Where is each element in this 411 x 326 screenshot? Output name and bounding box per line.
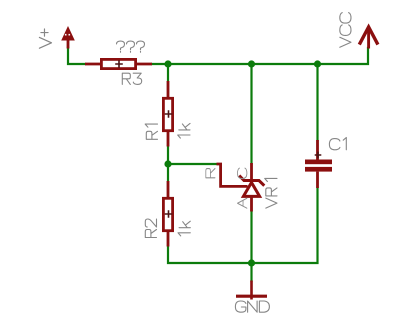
VR1 cathode pin bbox=[250, 163, 253, 180]
label ??? (R3 value) bbox=[117, 41, 145, 52]
supply V+ P1 bbox=[61, 26, 75, 49]
wire top rail from R3 to VCC corner bbox=[152, 48, 368, 64]
resistor R3 bbox=[85, 59, 152, 68]
label VCC bbox=[340, 13, 351, 48]
label 1k (R1 value) bbox=[178, 123, 190, 138]
wire middle node to VR1 ref bbox=[168, 163, 217, 165]
shunt regulator VR1 (TL431) bbox=[217, 163, 265, 212]
resistor R1 bbox=[163, 81, 172, 147]
wire R1 top bbox=[167, 64, 169, 81]
junction middle R1/R2/ref bbox=[164, 160, 171, 167]
junction top VR1 bbox=[248, 60, 255, 67]
wire GND stem bbox=[250, 263, 252, 281]
wire R1 bottom bbox=[167, 146, 169, 164]
wire VR1 anode to bottom rail bbox=[250, 211, 252, 263]
wire VR1 cathode column bbox=[250, 64, 252, 164]
wire C1 top bbox=[316, 64, 318, 140]
label C1 bbox=[329, 138, 346, 150]
capacitor C1 bbox=[305, 140, 332, 188]
label R2 bbox=[145, 219, 156, 238]
VR1 triangle bbox=[243, 183, 259, 197]
wire bottom rail to C1 column bbox=[252, 188, 318, 263]
wire V+ down to top rail bbox=[68, 48, 85, 64]
label GND bbox=[235, 301, 269, 312]
supply VCC bbox=[359, 27, 378, 49]
VR1 ref pin path bbox=[217, 164, 248, 186]
junction top R1 bbox=[164, 60, 171, 67]
label V+ bbox=[39, 29, 51, 48]
label R1 bbox=[145, 124, 157, 139]
ground GND bbox=[236, 281, 267, 300]
pin label A bbox=[237, 198, 246, 208]
label R3 bbox=[122, 73, 141, 84]
wire R2 bottom to bottom rail bbox=[168, 247, 252, 264]
junction top C1 bbox=[314, 60, 321, 67]
pin label C bbox=[237, 168, 246, 179]
resistor R2 bbox=[163, 181, 172, 247]
pin label R bbox=[206, 169, 215, 178]
junction bottom GND bbox=[248, 259, 255, 266]
label 1k (R2 value) bbox=[178, 221, 190, 236]
VR1 zener cathode bar bbox=[239, 176, 264, 186]
VR1 anode pin bbox=[250, 198, 253, 212]
wire R2 top bbox=[167, 164, 169, 181]
label VR1 bbox=[265, 178, 277, 208]
